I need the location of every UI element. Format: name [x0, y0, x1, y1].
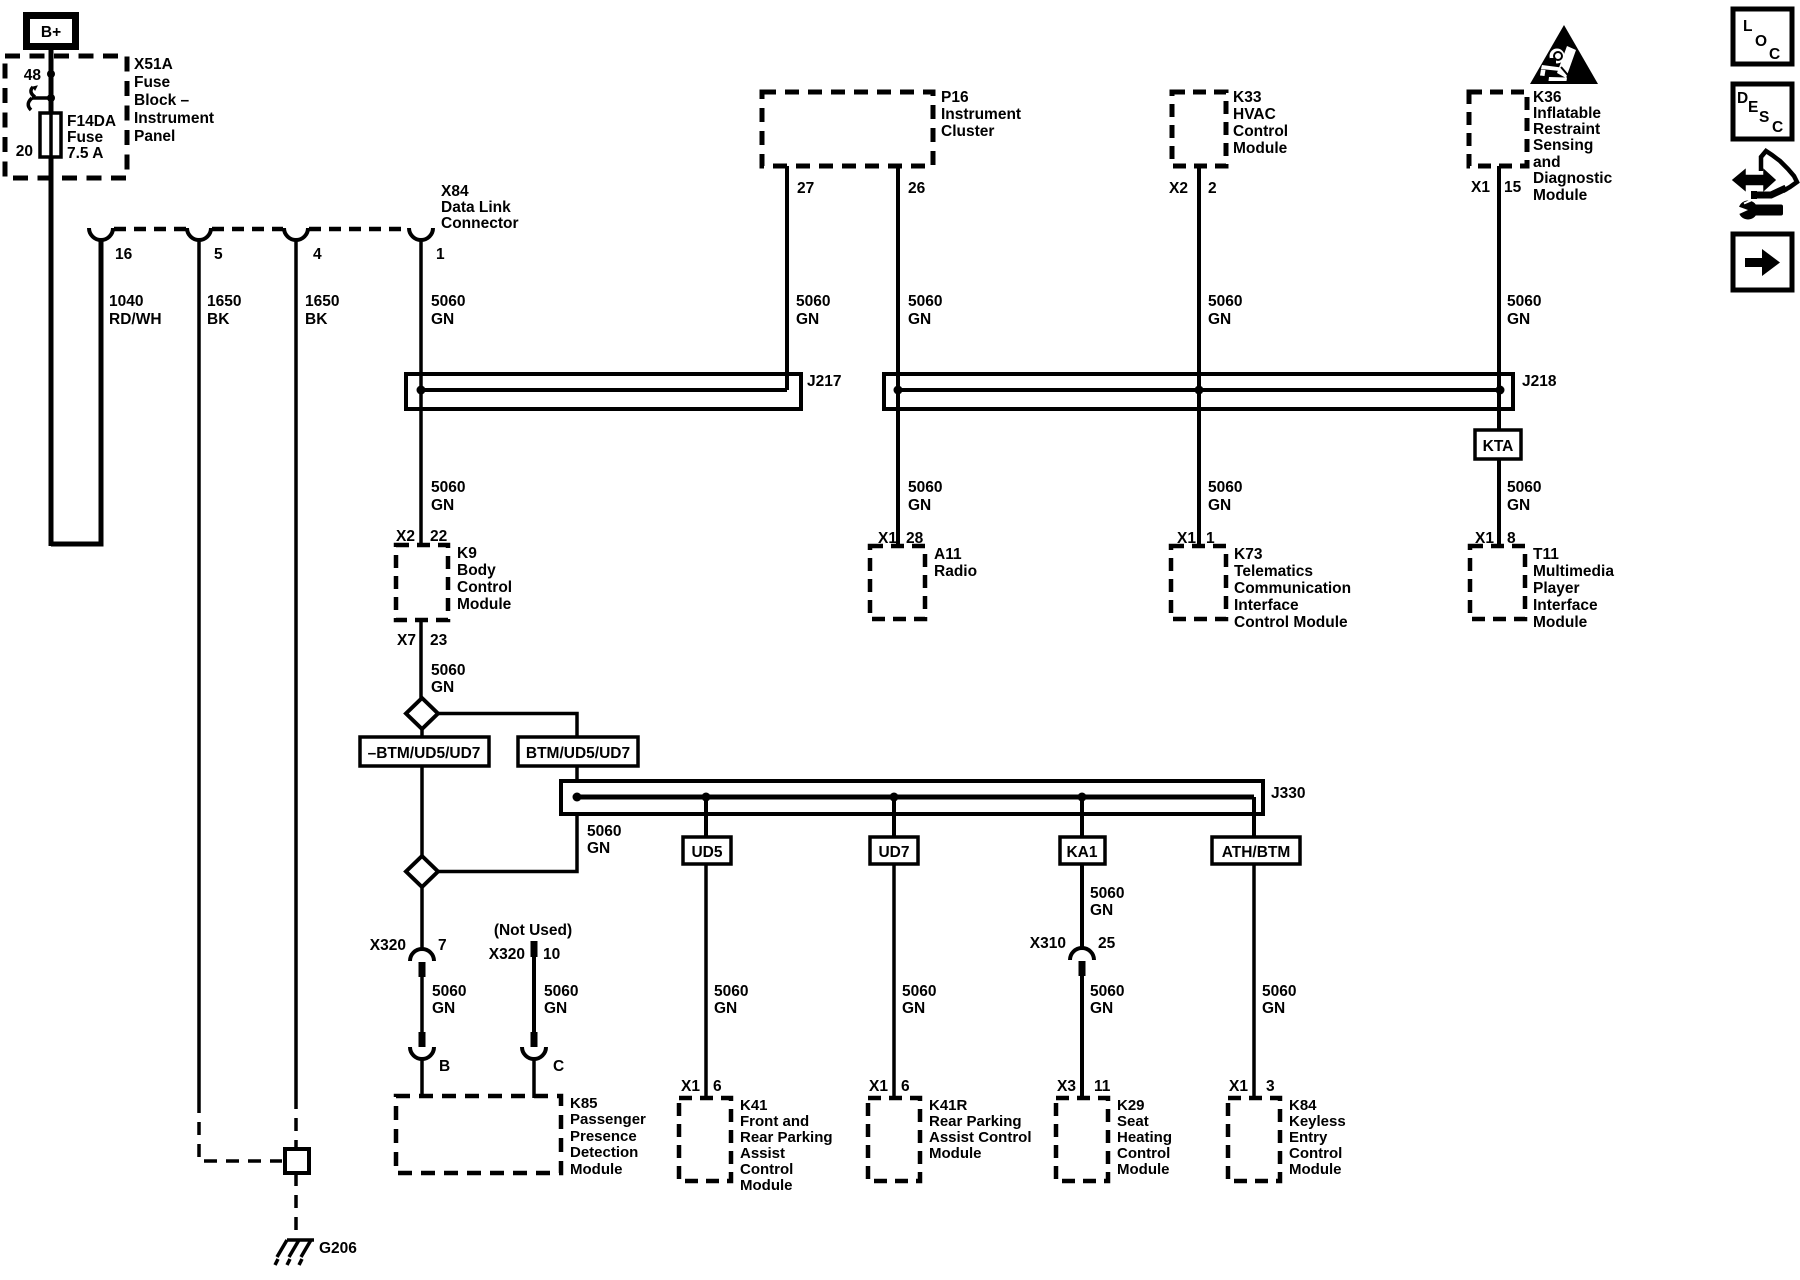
svg-text:Module: Module	[1533, 187, 1588, 204]
wire 1650 BK label (pin 4)	[305, 293, 339, 328]
svg-text:Player: Player	[1533, 580, 1580, 597]
sidebar icon forward arrow box	[1733, 234, 1792, 290]
in-line connector X310 pin 25	[1030, 935, 1116, 976]
svg-text:15: 15	[1504, 179, 1522, 196]
svg-text:GN: GN	[1090, 902, 1113, 919]
wire X84 pin 1 to K9	[419, 240, 423, 546]
svg-text:1040: 1040	[109, 293, 143, 310]
svg-text:6: 6	[713, 1078, 722, 1095]
svg-text:Panel: Panel	[134, 128, 175, 145]
wire UD5 to K41	[704, 864, 708, 1098]
ground symbol G206	[275, 1240, 314, 1265]
wire K9 X7 23 down to splice diamond	[419, 620, 423, 698]
wire 1650 BK label (pin 5)	[207, 293, 241, 328]
net label box UD5	[683, 837, 731, 864]
svg-text:26: 26	[908, 180, 926, 197]
K84 pins X1 3	[1229, 1078, 1275, 1095]
K9 label	[457, 545, 512, 613]
svg-text:3: 3	[1266, 1078, 1275, 1095]
svg-text:GN: GN	[544, 1000, 567, 1017]
svg-text:GN: GN	[587, 840, 610, 857]
wire 5060 GN label (pin 1)	[431, 293, 465, 328]
svg-text:K41: K41	[740, 1097, 768, 1114]
svg-text:Control Module: Control Module	[1234, 614, 1348, 631]
svg-text:Sensing: Sensing	[1533, 137, 1593, 154]
svg-text:BTM/UD5/UD7: BTM/UD5/UD7	[526, 745, 630, 762]
svg-text:GN: GN	[431, 679, 454, 696]
svg-text:J330: J330	[1271, 785, 1305, 802]
wire 5060 GN label (K33)	[1208, 293, 1242, 328]
svg-text:ATH/BTM: ATH/BTM	[1222, 844, 1291, 861]
ground splice square	[285, 1149, 309, 1173]
wire diamond to BTM/UD5/UD7	[438, 714, 577, 782]
svg-text:20: 20	[16, 143, 33, 160]
svg-text:5060: 5060	[431, 293, 465, 310]
K85 label	[570, 1095, 646, 1178]
svg-text:GN: GN	[714, 1000, 737, 1017]
svg-text:5060: 5060	[1208, 479, 1242, 496]
svg-text:GN: GN	[908, 497, 931, 514]
svg-text:Module: Module	[1233, 140, 1288, 157]
K36 label	[1533, 89, 1613, 204]
svg-text:Seat: Seat	[1117, 1113, 1149, 1130]
wire 5060 GN label (KA1 upper)	[1090, 885, 1124, 919]
svg-text:C: C	[1772, 119, 1783, 136]
body control module K9 pins X2 22	[396, 528, 447, 545]
svg-text:Connector: Connector	[441, 215, 519, 232]
svg-text:X1: X1	[869, 1078, 888, 1095]
svg-text:GN: GN	[1208, 311, 1231, 328]
svg-text:Control: Control	[740, 1161, 793, 1178]
in-line connector X320 pin 7	[370, 937, 447, 977]
svg-text:Control: Control	[1233, 123, 1288, 140]
passenger presence K85 dashed box	[396, 1096, 561, 1173]
svg-text:B+: B+	[41, 24, 61, 41]
keyless entry K84 dashed box	[1228, 1098, 1280, 1181]
svg-text:23: 23	[430, 632, 448, 649]
svg-text:KA1: KA1	[1066, 844, 1097, 861]
pin 48	[24, 67, 55, 84]
net label box KA1	[1060, 837, 1105, 864]
wire J330 to KA1 box	[1080, 797, 1084, 837]
svg-text:L: L	[1743, 18, 1752, 35]
svg-text:K41R: K41R	[929, 1097, 968, 1114]
wire K33 to K73 through J218	[1197, 166, 1201, 546]
radio A11 pins X1 28	[878, 530, 924, 547]
wire 5060 GN label (below KTA)	[1507, 479, 1541, 514]
svg-text:Presence: Presence	[570, 1128, 637, 1145]
wire ATH/BTM to K84	[1252, 864, 1256, 1098]
wire J330 to UD7 box	[892, 797, 896, 837]
data link connector X84 label	[441, 183, 519, 232]
K36 pins X1 15	[1471, 179, 1522, 196]
wire J330 right end to ATH/BTM box	[1252, 797, 1256, 837]
svg-text:X1: X1	[681, 1078, 700, 1095]
svg-text:C: C	[1769, 46, 1780, 63]
wire UD7 to K41R	[892, 864, 896, 1098]
A11 label	[934, 546, 977, 580]
svg-text:16: 16	[115, 246, 133, 263]
svg-text:5060: 5060	[1507, 479, 1541, 496]
K41R label	[929, 1097, 1032, 1162]
svg-text:GN: GN	[432, 1000, 455, 1017]
wire pin 4 ground run	[294, 240, 298, 1096]
svg-text:and: and	[1533, 154, 1561, 171]
T11 label	[1533, 546, 1614, 631]
svg-text:Control: Control	[1117, 1145, 1170, 1162]
svg-text:Module: Module	[1533, 614, 1588, 631]
svg-text:HVAC: HVAC	[1233, 106, 1276, 123]
svg-text:Instrument: Instrument	[941, 106, 1021, 123]
X84 pin 4 terminal	[284, 228, 308, 240]
svg-text:GN: GN	[1262, 1000, 1285, 1017]
svg-text:O: O	[1755, 33, 1767, 50]
svg-text:Interface: Interface	[1234, 597, 1299, 614]
splice pack J217	[406, 373, 841, 409]
svg-text:5060: 5060	[432, 983, 466, 1000]
svg-text:Module: Module	[929, 1145, 982, 1162]
svg-text:KTA: KTA	[1483, 438, 1514, 455]
in-line connector X320 pin 10 (not used)	[489, 941, 560, 963]
svg-text:Module: Module	[1117, 1161, 1170, 1178]
terminal C of K85	[522, 1032, 564, 1098]
wire P16 pin 26 to A11 through J218	[896, 166, 900, 546]
K33 pin X2 2	[1169, 180, 1217, 197]
K41 label	[740, 1097, 833, 1194]
svg-text:5060: 5060	[587, 823, 621, 840]
K84 label	[1289, 1097, 1346, 1178]
X84 pin 1 terminal	[409, 228, 433, 240]
net label box BTM/UD5/UD7	[518, 737, 638, 766]
svg-text:5060: 5060	[544, 983, 578, 1000]
svg-text:Interface: Interface	[1533, 597, 1598, 614]
wire 5060 GN label (X320-10)	[544, 983, 578, 1017]
wire diamond down to lower diamond	[420, 729, 424, 856]
svg-text:Multimedia: Multimedia	[1533, 563, 1614, 580]
net label box -BTM/UD5/UD7	[360, 737, 489, 766]
net label box ATH/BTM	[1212, 837, 1300, 864]
svg-text:Fuse: Fuse	[67, 129, 104, 146]
svg-text:C: C	[553, 1058, 564, 1075]
radio A11 dashed box	[870, 546, 925, 619]
svg-text:GN: GN	[908, 311, 931, 328]
wire J330 to UD5 box	[704, 797, 708, 837]
svg-text:5: 5	[214, 246, 223, 263]
svg-text:X2: X2	[1169, 180, 1188, 197]
svg-text:X51A: X51A	[134, 56, 173, 73]
svg-text:5060: 5060	[908, 479, 942, 496]
body control module K9 dashed box	[396, 545, 448, 620]
svg-text:Inflatable: Inflatable	[1533, 105, 1601, 122]
telematics K73 pins X1 1	[1177, 530, 1215, 547]
wire B+ feed down through fuse block	[49, 50, 54, 546]
sidebar icon DESC box	[1733, 84, 1792, 139]
K41R pins X1 6	[869, 1078, 910, 1095]
svg-text:7: 7	[438, 937, 447, 954]
svg-text:Heating: Heating	[1117, 1129, 1172, 1146]
fuse block label X51A	[134, 56, 214, 145]
svg-text:5060: 5060	[1090, 885, 1124, 902]
svg-text:5060: 5060	[1507, 293, 1541, 310]
wire 5060 GN label below K9	[431, 662, 465, 696]
K29 pins X3 11	[1057, 1078, 1111, 1095]
svg-text:X2: X2	[396, 528, 415, 545]
svg-text:K36: K36	[1533, 89, 1562, 106]
svg-text:Cluster: Cluster	[941, 123, 994, 140]
K29 label	[1117, 1097, 1172, 1178]
terminal B of K85	[410, 1032, 450, 1098]
wire 5060 GN label (pin 27)	[796, 293, 830, 328]
svg-text:D: D	[1737, 90, 1748, 107]
sidebar icon LOC box	[1733, 9, 1792, 64]
sidebar icon swap arrows and wrench	[1733, 151, 1797, 220]
svg-text:GN: GN	[1208, 497, 1231, 514]
net label box KTA	[1475, 430, 1521, 459]
svg-text:11: 11	[1094, 1078, 1111, 1095]
X84 pin 5 terminal	[187, 228, 211, 240]
svg-text:Control: Control	[457, 579, 512, 596]
svg-text:GN: GN	[1507, 311, 1530, 328]
fuse F14DA	[40, 113, 61, 157]
svg-text:48: 48	[24, 67, 42, 84]
svg-text:X310: X310	[1030, 935, 1066, 952]
svg-text:Rear Parking: Rear Parking	[740, 1129, 833, 1146]
svg-text:X1: X1	[1229, 1078, 1248, 1095]
svg-text:UD7: UD7	[878, 844, 909, 861]
wire 5060 GN label (UD5)	[714, 983, 748, 1017]
svg-text:GN: GN	[431, 311, 454, 328]
svg-text:Rear Parking: Rear Parking	[929, 1113, 1022, 1130]
wire 5060 GN label (UD7)	[902, 983, 936, 1017]
svg-text:K9: K9	[457, 545, 477, 562]
splice pack J218	[884, 373, 1557, 409]
X84 pin 16 terminal	[89, 228, 113, 240]
wire 5060 GN label (K36)	[1507, 293, 1541, 328]
multimedia player T11 pins X1 8	[1475, 530, 1516, 547]
wire K36 to T11 through J218 and KTA	[1497, 166, 1501, 546]
svg-text:(Not Used): (Not Used)	[494, 922, 572, 939]
svg-text:22: 22	[430, 528, 447, 545]
svg-text:7.5 A: 7.5 A	[67, 145, 103, 162]
svg-text:5060: 5060	[796, 293, 830, 310]
svg-text:E: E	[1748, 99, 1758, 116]
svg-text:5060: 5060	[1262, 983, 1296, 1000]
wire 5060 GN label (ATH/BTM)	[1262, 983, 1296, 1017]
svg-text:X320: X320	[489, 946, 525, 963]
svg-text:Assist: Assist	[740, 1145, 785, 1162]
svg-text:X320: X320	[370, 937, 406, 954]
HVAC control module K33 dashed box	[1172, 92, 1226, 166]
rear parking assist K41R dashed box	[868, 1098, 920, 1181]
battery positive voltage symbol B+	[23, 12, 79, 50]
svg-text:BK: BK	[305, 311, 328, 328]
svg-text:5060: 5060	[431, 662, 465, 679]
svg-text:X84: X84	[441, 183, 469, 200]
svg-text:–BTM/UD5/UD7: –BTM/UD5/UD7	[368, 745, 481, 762]
svg-text:Passenger: Passenger	[570, 1111, 646, 1128]
wire P16 pin 27 to J217	[785, 166, 789, 390]
svg-text:Detection: Detection	[570, 1144, 638, 1161]
svg-text:RD/WH: RD/WH	[109, 311, 162, 328]
wire KA1 to X310	[1080, 864, 1084, 948]
svg-text:Body: Body	[457, 562, 496, 579]
wire 1040 RD/WH label	[109, 293, 162, 328]
instrument cluster P16 dashed box	[762, 92, 933, 166]
svg-text:K84: K84	[1289, 1097, 1317, 1114]
svg-text:5060: 5060	[714, 983, 748, 1000]
svg-text:Module: Module	[570, 1161, 623, 1178]
svg-text:Fuse: Fuse	[134, 74, 171, 91]
svg-text:K85: K85	[570, 1095, 598, 1112]
wire X310 to K29	[1080, 976, 1084, 1098]
svg-text:X7: X7	[397, 632, 416, 649]
svg-text:K29: K29	[1117, 1097, 1145, 1114]
svg-text:K73: K73	[1234, 546, 1263, 563]
svg-text:Keyless: Keyless	[1289, 1113, 1346, 1130]
wire 5060 GN label (X320-7)	[432, 983, 466, 1017]
svg-text:1650: 1650	[207, 293, 241, 310]
svg-text:B: B	[439, 1058, 450, 1075]
svg-text:5060: 5060	[1090, 983, 1124, 1000]
circuit breaker switch symbol	[28, 86, 51, 110]
fuse block X51A dashed box	[5, 56, 127, 178]
svg-text:A11: A11	[934, 546, 962, 563]
svg-text:GN: GN	[431, 497, 454, 514]
wire 5060 GN label (A11 drop)	[908, 479, 942, 514]
svg-text:J218: J218	[1522, 373, 1557, 390]
K41 pins X1 6	[681, 1078, 722, 1095]
K9 pins X7 23	[397, 632, 448, 649]
wire pin 5 ground run	[197, 240, 201, 1100]
svg-text:Communication: Communication	[1234, 580, 1351, 597]
svg-text:5060: 5060	[902, 983, 936, 1000]
K73 label	[1234, 546, 1351, 631]
svg-text:Entry: Entry	[1289, 1129, 1328, 1146]
svg-text:6: 6	[901, 1078, 910, 1095]
svg-text:5060: 5060	[1208, 293, 1242, 310]
svg-text:GN: GN	[902, 1000, 925, 1017]
svg-text:2: 2	[1208, 180, 1217, 197]
svg-text:Diagnostic: Diagnostic	[1533, 170, 1613, 187]
svg-text:J217: J217	[807, 373, 841, 390]
svg-text:K33: K33	[1233, 89, 1262, 106]
wire to ground G206	[294, 1173, 298, 1234]
svg-text:27: 27	[797, 180, 814, 197]
svg-text:T11: T11	[1533, 546, 1559, 563]
svg-text:Instrument: Instrument	[134, 110, 214, 127]
fuse label F14DA 7.5 A	[67, 113, 116, 162]
svg-text:BK: BK	[207, 311, 230, 328]
P16 label	[941, 89, 1021, 140]
wire X320-10 to terminal C	[532, 957, 536, 1032]
splice pack J330	[561, 781, 1305, 814]
svg-text:Module: Module	[457, 596, 512, 613]
svg-text:GN: GN	[1507, 497, 1530, 514]
splice diamond node (upper)	[406, 698, 438, 729]
svg-text:5060: 5060	[908, 293, 942, 310]
svg-text:Control: Control	[1289, 1145, 1342, 1162]
wire 5060 GN label (J330 drop)	[587, 823, 621, 857]
wire J330 loop to lower diamond	[438, 814, 577, 872]
svg-text:Radio: Radio	[934, 563, 977, 580]
wire 5060 GN label (pin 26)	[908, 293, 942, 328]
svg-text:G206: G206	[319, 1240, 357, 1257]
svg-text:GN: GN	[796, 311, 819, 328]
wire 5060 GN label (KA1 lower)	[1090, 983, 1124, 1017]
svg-text:S: S	[1759, 109, 1769, 126]
K33 label	[1233, 89, 1288, 157]
svg-text:Assist Control: Assist Control	[929, 1129, 1032, 1146]
inflatable restraint module K36 dashed box	[1469, 92, 1527, 166]
airbag warning triangle icon	[1530, 25, 1598, 84]
wire 5060 GN label above K9	[431, 479, 465, 514]
svg-text:Restraint: Restraint	[1533, 121, 1600, 138]
svg-text:Module: Module	[1289, 1161, 1342, 1178]
wire lower diamond to X320 pin 7	[420, 887, 424, 948]
svg-text:1: 1	[436, 246, 445, 263]
telematics K73 dashed box	[1171, 546, 1226, 619]
wire X320-7 to terminal B	[420, 977, 424, 1032]
svg-text:Module: Module	[740, 1177, 793, 1194]
svg-text:Data Link: Data Link	[441, 199, 511, 216]
wire 5060 GN label (K73 drop)	[1208, 479, 1242, 514]
svg-text:Block –: Block –	[134, 92, 190, 109]
svg-text:P16: P16	[941, 89, 969, 106]
wire elbow to DLC pin 16	[51, 240, 101, 544]
svg-text:4: 4	[313, 246, 322, 263]
svg-text:10: 10	[543, 946, 560, 963]
svg-text:Telematics: Telematics	[1234, 563, 1313, 580]
svg-text:UD5: UD5	[691, 844, 722, 861]
svg-text:X1: X1	[1471, 179, 1490, 196]
svg-text:X3: X3	[1057, 1078, 1076, 1095]
svg-text:Front and: Front and	[740, 1113, 809, 1130]
svg-text:25: 25	[1098, 935, 1116, 952]
svg-text:F14DA: F14DA	[67, 113, 116, 130]
svg-text:1650: 1650	[305, 293, 339, 310]
seat heating K29 dashed box	[1056, 1098, 1108, 1181]
svg-text:GN: GN	[1090, 1000, 1113, 1017]
multimedia player T11 dashed box	[1470, 546, 1525, 619]
X84 dashed connector line	[114, 227, 408, 232]
parking assist K41 dashed box	[679, 1098, 731, 1181]
svg-text:5060: 5060	[431, 479, 465, 496]
splice diamond node (lower)	[406, 856, 438, 887]
net label box UD7	[870, 837, 918, 864]
